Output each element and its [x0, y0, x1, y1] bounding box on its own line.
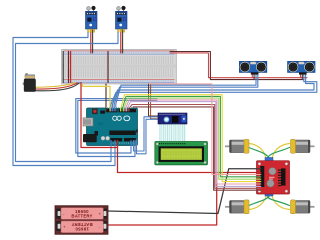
svg-text:BATTERY: BATTERY [71, 222, 92, 227]
svg-text:+: + [99, 211, 102, 216]
svg-text:+: + [63, 225, 66, 230]
svg-text:BATTERY: BATTERY [71, 213, 92, 218]
